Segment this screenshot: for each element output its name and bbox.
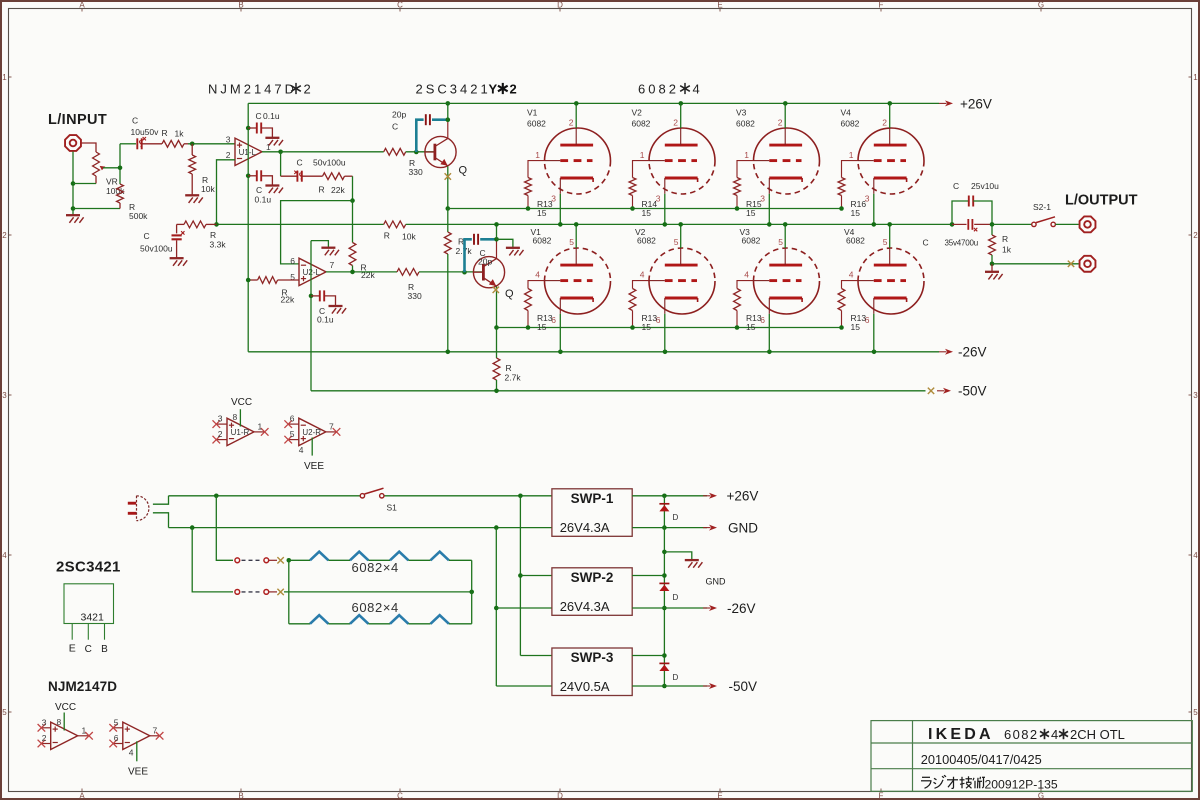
svg-text:1: 1 — [640, 150, 645, 160]
svg-text:E: E — [717, 0, 722, 9]
svg-text:2: 2 — [673, 117, 678, 127]
svg-text:1: 1 — [744, 150, 749, 160]
svg-text:24V0.5A: 24V0.5A — [560, 679, 610, 694]
wire V2 lower grid lead — [633, 281, 650, 289]
pin 6 label V3 lower — [760, 315, 765, 325]
pin 6 label njmB — [114, 733, 119, 743]
svg-text:6082: 6082 — [527, 119, 546, 129]
svg-text:50v100u: 50v100u — [140, 244, 173, 254]
wire V4 plate to +26V — [889, 103, 891, 128]
label R 1k — [162, 128, 185, 139]
stub pin6 njmB — [109, 740, 122, 748]
wire V2 lower cathode to -26V — [664, 314, 666, 352]
wire R330 to Q2 base — [419, 271, 483, 273]
svg-text:VEE: VEE — [128, 767, 148, 778]
wire plug lower stub — [153, 513, 169, 528]
label VEE njm — [128, 767, 148, 778]
label VR 100k — [106, 177, 125, 197]
x-mark heater row1 — [277, 557, 283, 563]
wire pin8 njmA — [63, 713, 65, 731]
svg-text:C: C — [297, 158, 303, 168]
op-amp U2-L — [299, 258, 326, 285]
capacitor C0.1u U2 — [311, 290, 336, 305]
svg-text:6082: 6082 — [632, 119, 651, 129]
junction gnd stub — [662, 550, 667, 555]
label -26V — [958, 345, 987, 360]
ground C0.1u bottom — [265, 186, 283, 194]
wire jack tip to VR top — [82, 143, 96, 152]
wire V3 lower grid lead — [737, 281, 754, 289]
wire U2 pin8 gnd stub — [311, 241, 328, 248]
tube V4 upper 6082 — [858, 128, 924, 194]
svg-text:15: 15 — [851, 322, 861, 332]
tube V2 upper 6082 — [649, 128, 715, 194]
resistor R 1k output — [989, 224, 996, 263]
svg-text:1k: 1k — [175, 129, 185, 139]
resistor R13 15 lower V2 — [629, 289, 636, 328]
label 6082x4 lower — [352, 600, 399, 615]
capacitor C 20p lower — [465, 234, 497, 272]
gnd stub psu — [664, 552, 691, 560]
resistor R15 15 — [734, 178, 741, 209]
stub pin6 U2-R — [284, 420, 298, 428]
svg-text:6082: 6082 — [1004, 727, 1039, 742]
svg-text:3: 3 — [2, 391, 7, 400]
svg-text:V3: V3 — [736, 107, 747, 117]
svg-text:6082: 6082 — [638, 82, 679, 97]
svg-text:B: B — [238, 0, 243, 9]
label V1 lower — [531, 227, 552, 246]
diode D1 — [659, 504, 669, 512]
svg-text:5: 5 — [778, 237, 783, 247]
junction SWP-3 top — [662, 653, 667, 658]
wire R10k to output bus — [406, 223, 497, 225]
junction R13 lower bus V3 — [735, 325, 740, 330]
svg-text:5: 5 — [2, 708, 7, 717]
pins 2SC3421 — [72, 624, 104, 640]
pin 5 label V1 lower — [569, 237, 574, 247]
svg-text:26V4.3A: 26V4.3A — [560, 599, 610, 614]
junction R13 lower bus V1 — [526, 325, 531, 330]
svg-text:D: D — [673, 593, 679, 602]
pin 3 label U1-L — [226, 134, 231, 144]
arrow -26V — [939, 349, 953, 355]
svg-text:4: 4 — [693, 82, 700, 97]
svg-text:SWP-1: SWP-1 — [571, 491, 614, 506]
capacitor C 50v100u gnd — [172, 224, 185, 258]
resistor R 1k input — [162, 140, 188, 147]
transistor Q1 2SC3421 — [425, 136, 456, 167]
resistor R 330 lower — [397, 269, 419, 276]
label GND psu — [728, 521, 758, 536]
svg-text:3: 3 — [226, 134, 231, 144]
wire AC2 to heater conn — [192, 528, 233, 592]
label 2SC3421 heading — [56, 559, 121, 576]
label -50V — [958, 384, 987, 399]
svg-text:0.1u: 0.1u — [263, 111, 280, 121]
label R13 15 lower V1 — [537, 313, 553, 332]
label C 10u50v — [131, 116, 160, 138]
svg-text:U1-L: U1-L — [239, 148, 257, 157]
ground U2 pin8 — [321, 248, 339, 256]
svg-text:1k: 1k — [1002, 245, 1012, 255]
wire AC1 to heater conn — [216, 496, 233, 561]
wire long y224 net — [214, 222, 384, 227]
label Q2 — [505, 288, 514, 300]
svg-text:5: 5 — [290, 429, 295, 439]
x-mark Q2 emitter — [493, 287, 499, 293]
arrow -50V psu — [703, 683, 717, 689]
wire diode chain vertical — [663, 496, 665, 686]
svg-text:SWP-2: SWP-2 — [571, 570, 614, 585]
wire plug upper stub — [153, 496, 169, 504]
pin 8 label U1-R — [233, 412, 238, 422]
op-amp U2-R reference — [299, 418, 326, 445]
heater string 6082x4 lower — [289, 592, 472, 624]
svg-text:5: 5 — [569, 237, 574, 247]
pin 1 label njmA — [82, 725, 87, 735]
stub out U2-R — [326, 428, 341, 436]
svg-text:330: 330 — [408, 291, 422, 301]
label L/INPUT — [48, 112, 107, 128]
svg-text:1: 1 — [82, 725, 87, 735]
svg-text:2.7k: 2.7k — [505, 373, 522, 383]
svg-text:0.1u: 0.1u — [317, 315, 334, 325]
wire node A to U2 pin6 — [281, 201, 353, 264]
svg-text:2: 2 — [882, 117, 887, 127]
svg-text:C: C — [397, 0, 403, 9]
svg-text:IKEDA: IKEDA — [928, 726, 994, 743]
junction U1 pin8 decouple — [246, 126, 251, 131]
wire wiper node — [118, 144, 123, 184]
pin 2 label U1-R — [218, 429, 223, 439]
op-amp U1-L — [235, 138, 262, 165]
svg-text:3421: 3421 — [81, 612, 105, 624]
wire wiper to C — [120, 143, 136, 145]
svg-text:+26V: +26V — [960, 96, 992, 111]
svg-text:6082: 6082 — [736, 119, 755, 129]
junction R16 grid bus — [839, 206, 844, 211]
svg-text:2: 2 — [2, 231, 7, 240]
wire V4 grid lead — [842, 161, 859, 178]
label R 10k feedback — [384, 231, 417, 242]
title row 3 japanese — [921, 775, 985, 788]
arrow +26V — [939, 100, 953, 106]
label S2-1 — [1033, 202, 1051, 212]
svg-text:R: R — [384, 231, 390, 241]
wire U1-L supply line — [247, 103, 249, 351]
label GND small — [706, 577, 727, 587]
wire V2 cathode to bus — [663, 194, 668, 227]
resistor R 10k to gnd — [189, 144, 196, 195]
svg-text:22k: 22k — [281, 294, 295, 304]
label C 50v100u chain — [297, 158, 346, 168]
label R 3.3k — [210, 230, 227, 250]
title row 1 — [928, 726, 1125, 743]
svg-text:20100405/0417/0425: 20100405/0417/0425 — [921, 752, 1042, 767]
pin 4 label V4 lower — [849, 269, 854, 279]
wire U1-R pin8 VCC — [239, 409, 241, 426]
title row 2 — [921, 752, 1042, 767]
resistor R14 15 — [629, 178, 636, 209]
pin 6 label V1 lower — [551, 315, 556, 325]
pin 6 label U2-R — [290, 414, 295, 424]
label V3 upper — [736, 107, 755, 128]
svg-text:B: B — [101, 644, 108, 655]
ground R1k — [985, 264, 1003, 280]
junction R13 lower bus V2 — [630, 325, 635, 330]
wire lower jack — [992, 263, 1079, 265]
wire AC1 drop to SWP-2/3 — [518, 496, 552, 656]
jack L/OUTPUT gnd — [1080, 256, 1096, 272]
tube V4 lower 6082 — [858, 248, 924, 314]
svg-text:6082: 6082 — [841, 119, 860, 129]
svg-text:2: 2 — [226, 150, 231, 160]
pin 7 label njmB — [153, 725, 158, 735]
svg-text:R: R — [1002, 234, 1008, 244]
arrow -26V psu — [703, 605, 717, 611]
svg-text:Y: Y — [489, 82, 498, 97]
junction SWP-2 bottom — [662, 606, 667, 611]
svg-text:3: 3 — [1193, 391, 1198, 400]
svg-text:G: G — [1038, 0, 1044, 9]
label R 2.7k lower — [505, 363, 522, 383]
wire V4 lower plate to output bus — [887, 222, 892, 248]
junction Q2 emitter lower bus — [494, 325, 499, 330]
svg-text:4: 4 — [744, 269, 749, 279]
pin 2 label V1 upper — [569, 117, 574, 127]
pin 4 label V1 lower — [535, 269, 540, 279]
svg-text:6: 6 — [114, 733, 119, 743]
svg-text:G: G — [1038, 792, 1044, 800]
svg-text:A: A — [79, 792, 85, 800]
box SWP-1 — [552, 489, 632, 537]
resistor R 10k feedback — [384, 221, 406, 228]
svg-text:22k: 22k — [331, 185, 345, 195]
label R14 15 — [642, 199, 658, 218]
label -50V psu — [729, 679, 758, 694]
wire pin4 njmB — [136, 741, 138, 761]
wire R500k bottom — [73, 208, 120, 210]
pin 6 label V4 lower — [865, 315, 870, 325]
svg-text:A: A — [79, 0, 85, 9]
svg-text:Q: Q — [459, 165, 468, 177]
svg-text:2: 2 — [304, 82, 311, 97]
arrow GND psu — [703, 525, 717, 531]
svg-text:15: 15 — [537, 208, 547, 218]
jack J1 L/INPUT — [65, 135, 81, 151]
pin 5 label V4 lower — [883, 237, 888, 247]
wire V4 lower cathode to -26V — [873, 314, 875, 352]
label R13 15 lower V2 — [642, 313, 658, 332]
label R 1k output — [1002, 234, 1012, 255]
wire U2-L output — [326, 270, 397, 275]
wire SWP-2 upper stub — [632, 575, 664, 577]
wire SWP-3 upper stub — [632, 655, 664, 657]
svg-text:C: C — [85, 644, 92, 655]
wire V1 lower plate to output bus — [574, 222, 579, 248]
label C 25v10u — [953, 181, 999, 191]
wire Q1 collector — [446, 101, 451, 138]
junction U1 pin4 decouple — [246, 174, 251, 179]
svg-text:8: 8 — [57, 717, 62, 727]
wire V4 lower grid lead — [842, 281, 859, 289]
svg-text:R: R — [162, 128, 168, 138]
ground psu — [685, 560, 703, 568]
arrow -50V — [937, 388, 951, 394]
junction R13 grid bus — [526, 206, 531, 211]
diode D3 — [659, 663, 669, 671]
heading NJM2147D*2 — [208, 82, 311, 97]
package 2SC3421 — [64, 584, 114, 624]
heater string 6082x4 upper — [289, 552, 472, 592]
svg-text:5: 5 — [883, 237, 888, 247]
capacitor C0.1u U1 top — [248, 123, 272, 138]
label L/OUTPUT — [1065, 193, 1138, 209]
label R13 15 lower V3 — [746, 313, 762, 332]
svg-text:VCC: VCC — [55, 702, 76, 713]
wire V4 cathode to bus — [872, 194, 877, 227]
svg-text:3: 3 — [218, 414, 223, 424]
wire U2-L supply line — [310, 241, 312, 391]
wire jack sleeve down — [72, 152, 74, 216]
svg-text:6082: 6082 — [742, 236, 761, 246]
label -26V psu — [727, 601, 756, 616]
label NJM2147D heading — [48, 679, 117, 694]
ground input jack — [66, 215, 84, 223]
resistor R 3.3k — [177, 221, 217, 228]
label R13 15 — [537, 199, 553, 218]
pin 5 label U2-R — [290, 429, 295, 439]
resistor R13 15 lower V4 — [838, 289, 845, 328]
wire output bus — [494, 222, 952, 227]
pin 7 label U2-L — [330, 260, 335, 270]
svg-text:D: D — [673, 673, 679, 682]
label D2 — [673, 593, 679, 602]
AC plug — [128, 496, 149, 521]
pin 1 label U1-R — [258, 422, 263, 432]
svg-text:S2-1: S2-1 — [1033, 202, 1051, 212]
label V2 upper — [632, 107, 651, 128]
stub out njmA — [78, 732, 93, 740]
svg-text:10k: 10k — [201, 184, 215, 194]
wire V3 plate to +26V — [784, 103, 786, 128]
svg-text:1: 1 — [2, 73, 7, 82]
wire V3 lower cathode to -26V — [768, 314, 770, 352]
svg-text:6082: 6082 — [533, 236, 552, 246]
heading 2SC3421Y*2 — [416, 82, 517, 97]
label SWP-1 — [571, 491, 614, 506]
arrow +26V psu — [703, 493, 717, 499]
label 26V4.3A (1) — [560, 520, 610, 535]
svg-text:D: D — [557, 0, 563, 9]
pin 6 label U2-L — [290, 256, 295, 266]
svg-text:7: 7 — [329, 422, 334, 432]
svg-text:15: 15 — [642, 208, 652, 218]
label SWP-2 — [571, 570, 614, 585]
wire heater row2 line — [284, 590, 474, 595]
wire chain to node A — [350, 176, 355, 203]
wire -26V rail — [248, 350, 939, 355]
capacitor C 25v10u — [952, 196, 992, 225]
diode D2 — [659, 583, 669, 591]
svg-text:1: 1 — [849, 150, 854, 160]
wire U2-R pin4 VEE — [311, 438, 313, 456]
svg-text:500k: 500k — [129, 211, 148, 221]
svg-text:10u50v: 10u50v — [131, 127, 160, 137]
svg-text:+26V: +26V — [727, 489, 759, 504]
svg-text:U2-R: U2-R — [302, 428, 321, 437]
pin 4 label U2-R — [299, 445, 304, 455]
wire output to chain — [280, 152, 282, 176]
stub out njmB — [150, 732, 164, 740]
pin 1 label V1 upper — [535, 150, 540, 160]
svg-text:0.1u: 0.1u — [255, 195, 272, 205]
label R 500k — [129, 202, 148, 221]
wire SWP-2 lower to -26V — [632, 607, 707, 609]
label V1 upper — [527, 107, 546, 128]
svg-text:C: C — [923, 238, 929, 248]
svg-text:4: 4 — [1051, 727, 1058, 742]
svg-text:2: 2 — [1193, 231, 1198, 240]
svg-text:4: 4 — [1193, 551, 1198, 560]
svg-text:GND: GND — [706, 577, 727, 587]
svg-text:V4: V4 — [841, 107, 852, 117]
label VEE U2-R — [304, 461, 324, 472]
wire +26V rail — [248, 101, 939, 106]
pin 5 label V3 lower — [778, 237, 783, 247]
label 6082x4 upper — [352, 560, 399, 575]
svg-text:S1: S1 — [387, 503, 398, 513]
wire SWP-3 lower to -50V — [632, 685, 707, 687]
label D1 — [673, 513, 679, 522]
svg-text:4: 4 — [2, 551, 7, 560]
wire upper grid bus — [448, 208, 842, 210]
svg-text:VR: VR — [106, 177, 118, 187]
capacitor C 50v100u chain — [281, 171, 323, 182]
connector pair heater row2 — [235, 590, 277, 595]
heading 6082*4 — [638, 82, 700, 97]
switch S2-1 — [992, 217, 1055, 227]
wire heater left tie — [288, 560, 290, 624]
wire R330a to base — [406, 150, 435, 155]
label C0.1u top — [256, 111, 280, 121]
pin 1 label V4 upper — [849, 150, 854, 160]
capacitor C0.1u U1 bottom — [248, 170, 272, 185]
pin 4 label njmB — [129, 747, 134, 757]
svg-text:3: 3 — [42, 717, 47, 727]
pin 2 label V3 upper — [778, 117, 783, 127]
ground R10k — [185, 195, 203, 203]
label S1 — [387, 503, 398, 513]
svg-text:V1: V1 — [527, 107, 538, 117]
svg-text:E: E — [69, 643, 76, 655]
svg-text:E: E — [717, 792, 722, 800]
label R 22k vertical — [361, 263, 376, 280]
svg-text:5: 5 — [674, 237, 679, 247]
ground C50v100u — [170, 258, 188, 266]
svg-text:20p: 20p — [392, 110, 406, 120]
resistor R 500k — [117, 184, 124, 209]
resistor R 2.7k upper — [444, 209, 451, 352]
svg-text:NJM2147D: NJM2147D — [48, 679, 117, 694]
label D3 — [673, 673, 679, 682]
svg-text:C: C — [132, 116, 138, 126]
svg-text:D: D — [557, 792, 563, 800]
label C 20p lower — [478, 248, 492, 267]
box SWP-3 — [552, 648, 632, 696]
label R 22k chain — [319, 185, 346, 196]
